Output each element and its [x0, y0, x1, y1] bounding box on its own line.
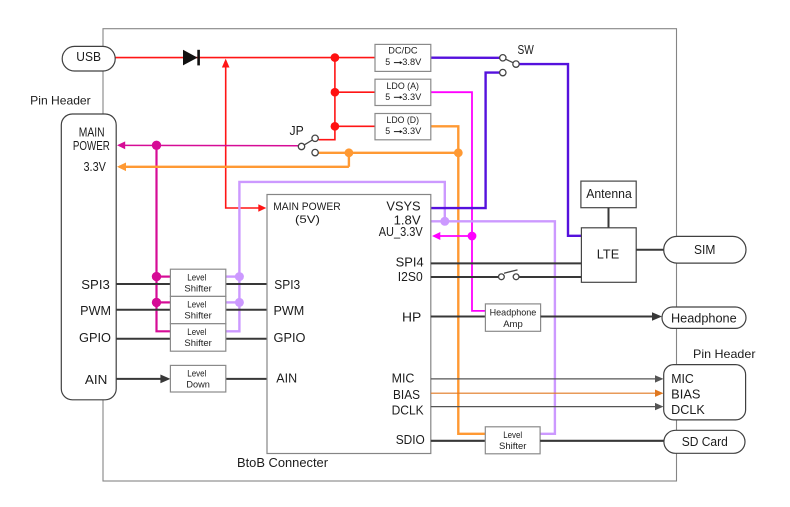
svg-text:3.3V: 3.3V [402, 126, 421, 136]
level shifter box GPIO [170, 324, 225, 352]
svg-text:5: 5 [385, 126, 390, 136]
wire: GPIO row right [226, 338, 267, 340]
svg-text:SW: SW [518, 43, 534, 57]
svg-text:LDO (A): LDO (A) [387, 81, 420, 91]
svg-text:MAIN POWER: MAIN POWER [273, 201, 341, 213]
svg-text:BtoB Connecter: BtoB Connecter [237, 456, 328, 470]
connector SD Card [664, 430, 745, 453]
svg-text:AIN: AIN [276, 372, 297, 386]
junction dot lavender at SPI3 shifter [235, 272, 244, 281]
wire: lavender 1.8V rail [431, 221, 555, 433]
BtoB pin labels right [379, 200, 425, 447]
svg-text:PWM: PWM [274, 304, 305, 318]
wire: lavender stub into level shifter 2 [226, 301, 240, 303]
wire: PWM row right [226, 309, 267, 311]
svg-text:3.8V: 3.8V [402, 57, 421, 67]
wire: lavender riser to level shifters [226, 182, 445, 331]
wire: orange riser at 3.3V branch [348, 153, 350, 167]
junction dot deep pink at main power row [152, 141, 161, 150]
svg-text:Shifter: Shifter [499, 441, 526, 452]
wire: indigo DC/DC output to SW [431, 57, 500, 59]
svg-text:DCLK: DCLK [392, 403, 425, 417]
wire: indigo SW to LTE [519, 64, 581, 236]
wire: PWM row left [116, 309, 170, 311]
regulator DC/DC [375, 44, 431, 71]
svg-text:HP: HP [402, 310, 421, 324]
wire: AIN row with arrow into Level Down [116, 375, 267, 384]
wire: antenna stub [608, 208, 610, 228]
connector SIM [664, 236, 746, 263]
junction dot red at LDO (D) row [331, 122, 340, 131]
svg-text:AIN: AIN [85, 373, 108, 387]
junction dot magenta at AU_3.3V [468, 232, 477, 241]
svg-text:SIM: SIM [694, 243, 715, 257]
svg-text:SPI4: SPI4 [396, 255, 424, 269]
svg-text:USB: USB [76, 49, 101, 64]
svg-text:Level: Level [187, 368, 206, 379]
wire: LTE to SIM [636, 249, 664, 251]
svg-text:5: 5 [385, 57, 390, 67]
svg-text:GPIO: GPIO [79, 331, 111, 345]
svg-text:SPI3: SPI3 [81, 278, 110, 292]
wire: orange LDO (D) output down to SDIO level shifter [431, 126, 486, 434]
svg-text:JP: JP [290, 124, 304, 138]
junction dot orange at SDIO riser [454, 148, 463, 157]
BtoB pin labels left [273, 201, 341, 386]
connector BtoB main box [267, 195, 431, 454]
svg-text:(5V): (5V) [295, 214, 320, 226]
svg-text:SD Card: SD Card [682, 435, 728, 449]
jumper JP [298, 135, 318, 156]
svg-text:5: 5 [385, 92, 390, 102]
junction dot red at DC/DC row [331, 53, 340, 62]
svg-text:DC/DC: DC/DC [388, 45, 418, 55]
wire: red vertical distribution to LDOs and JP [318, 58, 335, 140]
wire: SPI3 row right [226, 283, 267, 285]
svg-text:POWER: POWER [73, 139, 110, 153]
svg-text:MIC: MIC [671, 372, 694, 386]
svg-text:Level: Level [187, 327, 206, 338]
svg-text:Pin Header: Pin Header [30, 94, 90, 108]
wire: MIC to pin header [431, 375, 664, 382]
svg-text:3.3V: 3.3V [84, 160, 107, 174]
wire: lavender stub into level shifter 1 [226, 275, 240, 277]
level shifter box PWM [170, 296, 225, 323]
amplifier Headphone Amp [485, 304, 540, 331]
svg-text:SPI3: SPI3 [274, 278, 300, 292]
svg-text:Antenna: Antenna [586, 187, 632, 201]
wire: orange from JP contact joining at junction [318, 152, 458, 154]
svg-text:Shifter: Shifter [184, 338, 211, 349]
wire: SPI3 row left [116, 283, 170, 285]
svg-text:AU_3.3V: AU_3.3V [379, 225, 424, 239]
level shifter box SDIO [485, 427, 540, 454]
svg-text:MAIN: MAIN [79, 126, 105, 140]
svg-text:Down: Down [186, 380, 210, 391]
connector pin header right [664, 365, 746, 420]
regulator LDO (D) [375, 114, 431, 140]
svg-text:Level: Level [503, 430, 522, 441]
svg-text:Headphone: Headphone [671, 311, 737, 325]
wire: SDIO to level shifter [431, 440, 486, 442]
svg-text:BIAS: BIAS [393, 388, 420, 402]
wire: magenta LDO (A) output to AU_3.3V and headphone amp [431, 92, 486, 311]
svg-text:Amp: Amp [503, 319, 523, 330]
wire: red 5V rail USB to DC/DC [115, 57, 375, 59]
connector pin header MAIN POWER pill [61, 114, 116, 400]
wire: indigo SW alternate to VSYS [431, 73, 500, 209]
antenna box [581, 181, 636, 208]
regulator LDO (A) [375, 79, 431, 105]
level down box AIN [170, 365, 225, 392]
wire: deep pink vertical to level shifters [157, 145, 171, 331]
svg-text:BIAS: BIAS [671, 387, 700, 401]
svg-text:VSYS: VSYS [386, 200, 420, 214]
module LTE [581, 228, 636, 282]
wire: HP to headphone amp [431, 316, 486, 318]
svg-text:DCLK: DCLK [671, 403, 705, 417]
wire: headphone amp to Headphone jack [541, 312, 662, 321]
wire: BIAS to pin header [431, 390, 664, 397]
wire: red branch to LDO (D) [335, 125, 375, 127]
wire: orange 3.3V feed from JP to pin header [117, 163, 349, 172]
svg-text:LDO (D): LDO (D) [387, 115, 420, 125]
svg-text:Headphone: Headphone [490, 308, 537, 319]
wire: deep pink stub into level shifter 2 [157, 301, 171, 303]
svg-text:I2S0: I2S0 [398, 270, 423, 284]
junction dot orange near JP [345, 148, 354, 157]
wire: red branch down to MAIN POWER (5V) with up arrow [222, 59, 266, 212]
wire: red branch to LDO (A) [335, 91, 375, 93]
wire: I2S0 to LTE with switch [431, 270, 582, 280]
connector USB [62, 46, 115, 71]
svg-text:LTE: LTE [597, 246, 620, 261]
connector Headphone [662, 307, 746, 328]
svg-text:GPIO: GPIO [274, 331, 306, 345]
junction dot lavender at PWM shifter [235, 298, 244, 307]
junction dot deep pink at SPI3 shifter [152, 272, 161, 281]
wire: deep pink stub into level shifter 1 [157, 276, 171, 278]
board outline frame [103, 29, 677, 481]
svg-text:SDIO: SDIO [396, 433, 425, 447]
svg-text:Level: Level [187, 272, 206, 283]
svg-text:Pin Header: Pin Header [693, 347, 756, 361]
level shifter box SPI3 [170, 269, 225, 296]
svg-text:3.3V: 3.3V [402, 92, 421, 102]
svg-text:PWM: PWM [80, 304, 111, 318]
svg-text:Level: Level [187, 299, 206, 310]
svg-text:MIC: MIC [392, 372, 415, 386]
junction dot red at LDO (A) row [331, 88, 340, 97]
svg-text:Shifter: Shifter [184, 311, 211, 322]
wire: magenta arrow into AU_3.3V [432, 232, 472, 240]
wire: deep pink MAIN POWER feed from JP [117, 141, 299, 149]
diode D1 [183, 50, 200, 66]
wire: SPI4 to LTE [431, 262, 582, 264]
wire: SDIO level shifter to SD Card [540, 440, 664, 442]
switch SW [500, 55, 520, 76]
junction dot lavender at 1.8V row [440, 217, 449, 226]
junction dot deep pink at PWM shifter [152, 298, 161, 307]
svg-text:Shifter: Shifter [184, 284, 211, 295]
wire: DCLK to pin header [431, 403, 664, 410]
wire: GPIO row left [116, 338, 170, 340]
